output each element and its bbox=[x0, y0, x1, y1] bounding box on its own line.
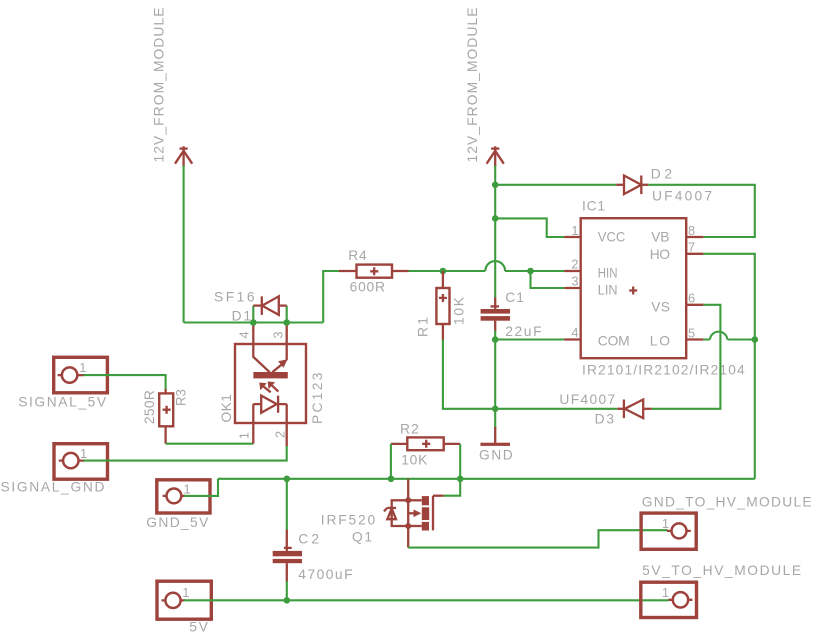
wire R2 right to rail bbox=[459, 444, 461, 479]
wire rail to Q1 drain bbox=[444, 479, 461, 496]
junction rail at R2 left bbox=[388, 476, 395, 483]
svg-text:12V_FROM_MODULE: 12V_FROM_MODULE bbox=[465, 8, 480, 163]
svg-text:C1: C1 bbox=[505, 290, 524, 305]
OK1 pin 1 wire bbox=[252, 404, 254, 444]
svg-text:1: 1 bbox=[571, 223, 578, 238]
junction rail at C2 bbox=[284, 476, 291, 483]
Q1 connect bottom contact bbox=[408, 525, 422, 527]
capacitor C2 plus tick bbox=[284, 547, 292, 549]
svg-text:8: 8 bbox=[688, 223, 695, 238]
junction on R4-HIN wire at R1 bbox=[440, 268, 447, 275]
IC1 plus mark bbox=[629, 287, 637, 295]
OK1 emitter diagonal with arrow bbox=[272, 362, 284, 372]
svg-text:D1: D1 bbox=[232, 308, 251, 323]
svg-text:COM: COM bbox=[598, 334, 630, 349]
Q1 body diode bar bbox=[384, 508, 396, 511]
resistor R3 plus mark bbox=[163, 406, 171, 414]
svg-text:1: 1 bbox=[80, 446, 87, 461]
svg-text:OK1: OK1 bbox=[219, 394, 234, 423]
GND symbol lead bbox=[494, 427, 496, 444]
svg-text:1: 1 bbox=[662, 516, 669, 531]
junction LO to right bus bbox=[752, 336, 759, 343]
wire C2 to 5V rail bbox=[286, 581, 288, 600]
transistor Q1 internal vertical bbox=[407, 500, 409, 547]
svg-text:PC123: PC123 bbox=[310, 372, 325, 424]
capacitor C2 top wire bbox=[286, 479, 288, 531]
svg-text:SIGNAL_GND: SIGNAL_GND bbox=[1, 480, 105, 495]
svg-text:LIN: LIN bbox=[598, 283, 618, 298]
OK1 emitter arrowhead bbox=[278, 359, 287, 368]
svg-text:HIN: HIN bbox=[598, 266, 618, 281]
wire D3 to VS pin 6 bbox=[652, 305, 721, 409]
wire LO pin 5 with hop bbox=[703, 332, 754, 340]
connector SIGNAL_5V pin circle bbox=[62, 367, 77, 382]
wire 12V#2 stem down to C1 bbox=[494, 166, 496, 299]
IC1 pin 7 HO stub bbox=[686, 253, 703, 255]
connector SIGNAL_GND box bbox=[54, 444, 108, 480]
wire to D2 anode bbox=[495, 184, 616, 186]
diode D2 lead right bbox=[641, 184, 648, 186]
resistor R1 lead top bbox=[442, 271, 444, 288]
OK1 LED cathode line bbox=[278, 403, 287, 405]
wire VCC connection bbox=[495, 218, 564, 237]
diode D3 cathode bar bbox=[623, 400, 625, 419]
connector 5V_TO_HV_MODULE box bbox=[641, 582, 697, 617]
svg-text:GND_TO_HV_MODULE: GND_TO_HV_MODULE bbox=[642, 495, 812, 510]
junction D1 right on 12V wire bbox=[283, 319, 290, 326]
capacitor C2 plate bottom bbox=[273, 559, 302, 563]
resistor R2 lead right bbox=[444, 443, 461, 445]
diode D3 lead right bbox=[643, 408, 652, 410]
wire C1 to COM row bbox=[494, 331, 496, 340]
Q1 connect top contact bbox=[408, 499, 422, 501]
capacitor C1 plate top bbox=[481, 309, 510, 314]
junction COM node bbox=[492, 336, 499, 343]
connector 5V_TO_HV_MODULE pin circle bbox=[673, 592, 688, 607]
resistor R2 lead left bbox=[391, 443, 407, 445]
connector GND_5V pin ticks bbox=[163, 495, 186, 497]
connector SIGNAL_GND pin circle bbox=[63, 453, 78, 468]
svg-text:5: 5 bbox=[688, 325, 695, 340]
connector 5V box bbox=[157, 581, 211, 619]
svg-text:R4: R4 bbox=[348, 248, 367, 263]
OK1 collector diagonal bbox=[253, 357, 269, 372]
svg-text:GND_5V: GND_5V bbox=[146, 515, 209, 530]
capacitor C2 top lead bbox=[286, 530, 288, 551]
diode D3 lead left bbox=[617, 408, 624, 410]
connector GND_TO_HV_MODULE pin ticks bbox=[667, 530, 691, 532]
svg-text:10K: 10K bbox=[401, 452, 428, 467]
svg-text:3: 3 bbox=[270, 331, 285, 338]
svg-text:5V: 5V bbox=[189, 620, 208, 635]
wire GND_5V to rail bbox=[184, 479, 218, 496]
Q1 bulk arrow bbox=[408, 512, 413, 514]
svg-text:6: 6 bbox=[688, 291, 695, 306]
optocoupler OK1 box bbox=[235, 344, 306, 423]
resistor R1 body bbox=[436, 288, 449, 324]
OK1 LED cathode bar bbox=[277, 396, 279, 413]
resistor R4 body bbox=[357, 265, 393, 278]
svg-text:3: 3 bbox=[571, 274, 578, 289]
wire HO pin 7 to right bus down to rail bbox=[703, 254, 754, 479]
capacitor C1 plate bottom bbox=[481, 316, 510, 321]
resistor R4 plus mark bbox=[370, 267, 378, 275]
Q1 gate bar bbox=[432, 496, 434, 531]
wire SIGNAL_5V to R3 bbox=[83, 375, 165, 390]
connector GND_5V pin circle bbox=[167, 489, 182, 504]
supply arrow P1 12V bbox=[175, 146, 192, 166]
connector GND_TO_HV_MODULE pin circle bbox=[672, 523, 687, 538]
Q1 channel contact bottom bbox=[422, 522, 429, 531]
Q1 body diode triangle bbox=[387, 508, 396, 519]
Q1 channel contact top bbox=[422, 496, 429, 505]
OK1 LED anode line bbox=[253, 403, 261, 405]
transistor Q1 junction dot top bbox=[405, 497, 411, 503]
resistor R1 lead bottom bbox=[442, 324, 444, 341]
svg-text:HO: HO bbox=[650, 247, 670, 262]
diode D1 anode line bbox=[253, 304, 261, 306]
junction 5V rail at C2 bbox=[284, 597, 291, 604]
wire SIGNAL_GND to OK1 pin 2 bbox=[83, 446, 286, 461]
diode D1 triangle bbox=[262, 296, 279, 315]
OK1 pin 3 wire bbox=[286, 322, 288, 361]
Q1 channel contact middle bbox=[422, 507, 429, 520]
IC1 pin 4 COM stub bbox=[564, 338, 581, 340]
OK1 pin 4 wire bbox=[252, 322, 254, 358]
diode D1 lead right bbox=[279, 304, 287, 306]
diode D1 green risers bbox=[253, 306, 286, 323]
IC1 pin 1 VCC stub bbox=[564, 236, 581, 238]
capacitor C2 bottom lead bbox=[286, 563, 288, 582]
connector SIGNAL_GND pin ticks bbox=[59, 459, 85, 461]
transistor Q1 junction dot bottom bbox=[405, 523, 411, 529]
OK1 light arrow 1 bbox=[264, 387, 271, 393]
diode D2 triangle bbox=[624, 176, 641, 195]
capacitor C1 plus tick bbox=[491, 305, 500, 307]
svg-text:600R: 600R bbox=[350, 280, 385, 295]
OK1 pin 2 wire bbox=[286, 404, 288, 446]
connector 5V pin circle bbox=[165, 593, 180, 608]
wire R2 left to rail bbox=[390, 444, 392, 479]
wire drop to LIN pin 3 bbox=[531, 271, 565, 288]
resistor R3 body bbox=[159, 393, 173, 426]
svg-text:10K: 10K bbox=[452, 296, 467, 325]
diode D2 lead left bbox=[616, 184, 624, 186]
svg-text:12V_FROM_MODULE: 12V_FROM_MODULE bbox=[151, 8, 166, 163]
IC1 pin 5 LO stub bbox=[686, 338, 703, 340]
svg-text:Q1: Q1 bbox=[352, 530, 372, 545]
supply arrow P2 12V bbox=[487, 146, 504, 166]
svg-text:VB: VB bbox=[651, 230, 669, 245]
IC1 pin 2 HIN stub bbox=[564, 270, 581, 272]
svg-text:D3: D3 bbox=[595, 412, 615, 427]
resistor R1 plus mark bbox=[439, 294, 447, 302]
svg-text:IRF520: IRF520 bbox=[321, 512, 376, 527]
connector SIGNAL_5V pin ticks bbox=[58, 374, 85, 376]
resistor R3 lead bottom bbox=[164, 426, 166, 443]
svg-text:UF4007: UF4007 bbox=[559, 392, 615, 407]
capacitor C2 plate top bbox=[273, 551, 302, 556]
junction on R4-HIN wire at LIN drop bbox=[527, 268, 534, 275]
svg-text:22uF: 22uF bbox=[505, 324, 541, 339]
connector 5V_TO_HV_MODULE pin ticks bbox=[668, 599, 692, 601]
wire COM node to pin 4 bbox=[495, 338, 564, 340]
IC U1 IR2101 box bbox=[581, 218, 687, 358]
GND symbol bar bbox=[480, 443, 510, 446]
svg-text:GND: GND bbox=[479, 448, 513, 463]
OK1 base bar bbox=[253, 372, 287, 378]
wire up to R4 bbox=[323, 271, 340, 323]
diode D1 cathode bar bbox=[261, 296, 263, 315]
svg-text:R3: R3 bbox=[174, 389, 189, 406]
diode D2 cathode bar bbox=[640, 176, 642, 195]
resistor R2 body bbox=[407, 437, 443, 450]
wire R3 to OK1 pin 1 bbox=[166, 443, 254, 445]
svg-text:IC1: IC1 bbox=[582, 199, 605, 214]
resistor R2 plus mark bbox=[422, 440, 430, 448]
diode D3 triangle bbox=[625, 400, 644, 419]
wire COM node down to GND node bbox=[494, 340, 496, 409]
svg-text:1: 1 bbox=[184, 482, 191, 497]
svg-text:2: 2 bbox=[571, 257, 578, 272]
svg-text:1: 1 bbox=[236, 432, 251, 439]
svg-text:4: 4 bbox=[236, 331, 251, 338]
svg-text:R2: R2 bbox=[400, 422, 419, 437]
OK1 LED triangle bbox=[261, 396, 277, 413]
svg-text:1: 1 bbox=[662, 585, 669, 600]
junction at D2 takeoff bbox=[492, 182, 499, 189]
resistor R3 lead top bbox=[164, 389, 166, 393]
OK1 light arrow 2 bbox=[272, 385, 278, 391]
Q1 drain stub bbox=[433, 495, 444, 497]
svg-text:2: 2 bbox=[273, 431, 288, 438]
svg-text:5V_TO_HV_MODULE: 5V_TO_HV_MODULE bbox=[642, 563, 801, 578]
wire GND node to GND symbol bbox=[494, 409, 496, 428]
capacitor C1 bottom lead bbox=[494, 321, 496, 332]
IC1 pin 8 VB stub bbox=[686, 236, 703, 238]
wire GND node to D3 bbox=[495, 408, 617, 410]
ground rail wire bbox=[218, 478, 755, 480]
svg-text:1: 1 bbox=[79, 360, 86, 375]
capacitor C1 top lead bbox=[494, 298, 496, 310]
connector SIGNAL_5V box bbox=[54, 357, 108, 393]
svg-text:VS: VS bbox=[651, 300, 670, 315]
svg-text:LO: LO bbox=[650, 334, 670, 349]
transistor Q1 gate riser bbox=[407, 479, 409, 501]
svg-text:4: 4 bbox=[571, 325, 578, 340]
resistor R4 lead left bbox=[339, 270, 357, 272]
IC1 pin 6 VS stub bbox=[686, 304, 703, 306]
IC1 pin 3 LIN stub bbox=[564, 287, 581, 289]
connector GND_5V box bbox=[157, 480, 210, 513]
svg-text:VCC: VCC bbox=[598, 230, 626, 245]
junction D1 left on 12V wire bbox=[250, 319, 257, 326]
svg-text:7: 7 bbox=[688, 240, 695, 255]
connector GND_TO_HV_MODULE box bbox=[641, 513, 696, 549]
svg-text:1: 1 bbox=[182, 585, 189, 600]
junction GND node bbox=[492, 406, 499, 413]
svg-text:SIGNAL_5V: SIGNAL_5V bbox=[18, 395, 107, 410]
wire 5V rail bbox=[184, 599, 669, 601]
connector 5V pin ticks bbox=[162, 599, 185, 601]
wire 12V#1 stem down bbox=[183, 166, 185, 323]
junction rail at R2 right bbox=[457, 476, 464, 483]
wire D2 cathode to VB pin 8 bbox=[648, 185, 755, 237]
wire R1 to GND node bbox=[443, 340, 495, 409]
wire R4 to HIN with hop over 12V#2 bbox=[409, 261, 565, 271]
junction at VCC takeoff bbox=[492, 215, 499, 222]
wire Q1 source to GND_TO_HV bbox=[408, 530, 667, 547]
svg-text:250R: 250R bbox=[142, 390, 157, 424]
resistor R4 lead right bbox=[392, 270, 409, 272]
wire 12V#1 horizontal to D1/OK1 bbox=[184, 321, 324, 323]
transistor Q1 body loop bbox=[392, 500, 409, 526]
